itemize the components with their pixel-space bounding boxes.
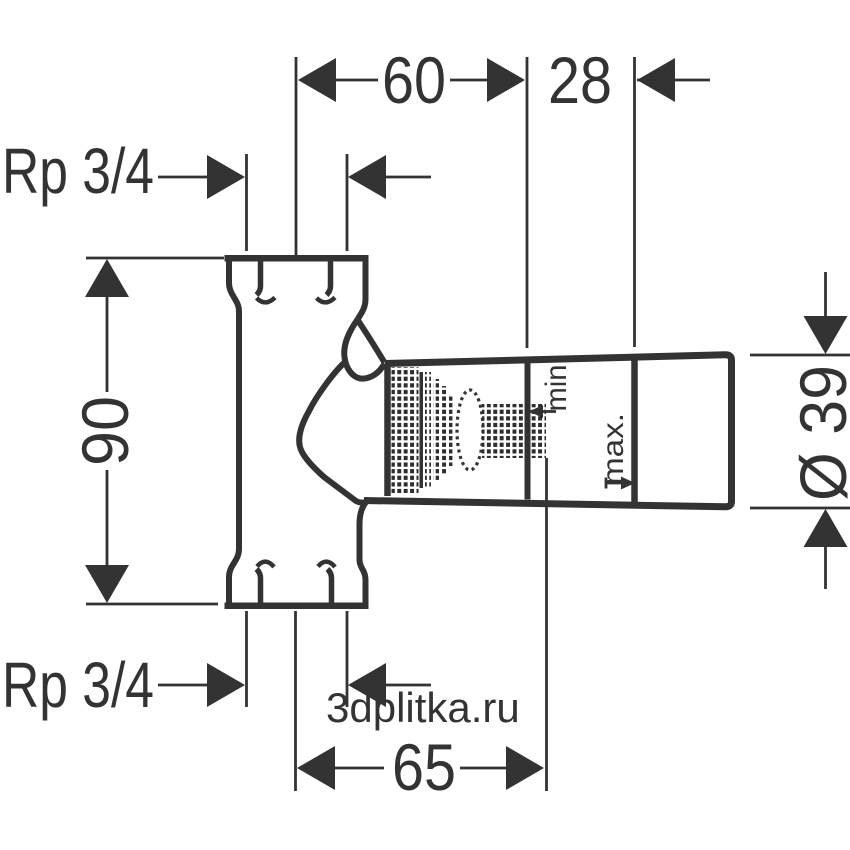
arrow 90 up bbox=[85, 259, 129, 297]
min position line bbox=[525, 358, 531, 500]
dimension D39 bottom stem bbox=[824, 544, 827, 589]
chamber wall curve bbox=[299, 362, 366, 503]
arrow 90 down bbox=[85, 565, 129, 603]
droplet transition left branch bbox=[344, 320, 384, 379]
body right edge upper bbox=[358, 256, 366, 320]
dimension 65 tail left bbox=[335, 767, 384, 770]
dimension 60 tail right bbox=[450, 79, 492, 82]
valve seat dotted ring bbox=[457, 390, 483, 470]
svg-text:Ø 39: Ø 39 bbox=[786, 365, 850, 501]
arrow 60 right bbox=[487, 58, 525, 102]
extension line 90 top bbox=[86, 257, 224, 260]
body right edge lower bbox=[360, 502, 367, 608]
body top flange bar bbox=[225, 255, 369, 262]
arrow Rp top pointing left bbox=[348, 155, 386, 199]
dimension Rp 3/4 bottom right tail bbox=[386, 684, 431, 687]
arrow max leader bbox=[621, 477, 635, 490]
cone dotted column 2 bbox=[433, 379, 439, 480]
leader Rp 3/4 bottom bbox=[158, 684, 210, 687]
arrow 65 right bbox=[506, 746, 544, 790]
hook top left smile bbox=[257, 298, 276, 303]
svg-text:65: 65 bbox=[392, 730, 456, 804]
dimension 28 outside tail bbox=[637, 79, 710, 82]
hook bottom right frown bbox=[318, 562, 335, 567]
extension line max position top bbox=[633, 57, 636, 347]
arrow 60 left bbox=[298, 58, 336, 102]
svg-text:Rp 3/4: Rp 3/4 bbox=[2, 135, 154, 207]
extension line Rp top right bbox=[346, 154, 349, 251]
extension line Rp top left bbox=[245, 154, 248, 251]
arrow Rp bottom pointing right bbox=[207, 663, 245, 707]
extension line 90 bottom bbox=[86, 603, 218, 606]
leader line min bbox=[529, 410, 556, 413]
hook top right line bbox=[327, 261, 331, 295]
dimension 90 stem lower bbox=[106, 470, 109, 568]
dimension 60 tail left bbox=[336, 79, 378, 82]
extension line D39 bottom bbox=[750, 507, 850, 510]
arrow 28 left(outside) bbox=[637, 58, 675, 102]
cone dotted column 3 bbox=[441, 386, 447, 475]
arrow 65 left bbox=[297, 746, 335, 790]
extension line Rp bottom right bbox=[346, 611, 349, 707]
max position line bbox=[631, 356, 638, 503]
extension line min position top bbox=[526, 57, 529, 348]
dimension Rp 3/4 top right tail bbox=[386, 176, 431, 179]
leader Rp 3/4 top bbox=[158, 176, 210, 179]
outlet left face line bbox=[384, 364, 391, 496]
arrow min leader bbox=[529, 405, 543, 418]
svg-text:60: 60 bbox=[382, 43, 446, 117]
arrow Rp bottom pointing left bbox=[348, 663, 386, 707]
dimension D39 top stem bbox=[824, 272, 827, 320]
cartridge edge line bbox=[420, 372, 424, 488]
cartridge dense dot grid bbox=[392, 367, 419, 493]
arrow D39 up bbox=[804, 509, 848, 547]
hook top right smile bbox=[317, 298, 336, 303]
outlet outline bbox=[364, 355, 732, 507]
hook bottom left frown bbox=[257, 562, 274, 567]
hook bottom right line bbox=[328, 569, 332, 603]
extension line Rp bottom left bbox=[245, 611, 248, 707]
dimension 65 tail right bbox=[460, 767, 508, 770]
hook top left line bbox=[257, 261, 261, 295]
dimension 90 stem upper bbox=[106, 294, 109, 392]
hook bottom left line bbox=[257, 569, 261, 603]
body bottom flange bar bbox=[225, 603, 369, 610]
svg-text:28: 28 bbox=[548, 43, 612, 117]
extension line body centerline top bbox=[295, 57, 298, 256]
extension line 65 left bbox=[294, 611, 297, 791]
svg-text:Rp 3/4: Rp 3/4 bbox=[2, 649, 154, 721]
arrow Rp top pointing right bbox=[207, 155, 245, 199]
svg-text:90: 90 bbox=[68, 396, 142, 466]
cone dotted column 1 bbox=[425, 372, 431, 488]
extension line 65 right bbox=[545, 458, 548, 791]
arrow D39 down bbox=[804, 316, 848, 354]
svg-text:3dplitka.ru: 3dplitka.ru bbox=[326, 684, 520, 731]
body left edge bbox=[229, 256, 239, 608]
extension line D39 top bbox=[750, 354, 850, 357]
cone dotted column 4 bbox=[449, 394, 454, 466]
leader line max bbox=[605, 478, 608, 489]
spindle dotted band bbox=[482, 404, 546, 458]
droplet transition diagonal bbox=[358, 321, 385, 363]
leader line max horizontal bbox=[606, 482, 623, 485]
svg-text:max.: max. bbox=[597, 413, 630, 485]
